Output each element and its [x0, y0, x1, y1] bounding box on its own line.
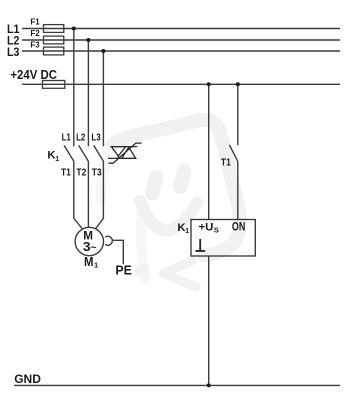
contactor K1 pole 2 contact: [79, 145, 89, 161]
node L2 tap: [86, 38, 90, 42]
wire +Us drop: [208, 84, 210, 219]
svg-text:1: 1: [185, 228, 189, 235]
thyristor bottom bar: [108, 157, 136, 159]
svg-text:F3: F3: [30, 39, 40, 49]
wire drop from L2: [87, 40, 89, 146]
watermark faint cable left: [101, 152, 109, 202]
contactor K1 pole 3 contact: [94, 145, 104, 161]
contact T1: [229, 145, 237, 162]
motor M1 circle: [75, 227, 103, 255]
fuse F3: [44, 47, 64, 55]
fuse F4 (24V): [43, 81, 65, 89]
svg-text:T2: T2: [76, 167, 86, 178]
svg-text:T1: T1: [221, 158, 231, 169]
wire T2 to motor: [87, 161, 89, 227]
soft starter thyristor symbol: [108, 143, 142, 163]
wire +24V DC bus: [22, 83, 340, 85]
wire drop from L1: [73, 29, 75, 147]
thyristor triangle up: [122, 147, 136, 158]
wire GND bus: [14, 384, 340, 386]
relay K1 box: [191, 220, 255, 257]
bypass diagonal with hooks: [109, 143, 142, 163]
wire drop from L3: [102, 51, 104, 146]
wire L1 bus: [22, 28, 340, 30]
svg-text:GND: GND: [14, 372, 41, 386]
svg-text:L3: L3: [91, 132, 101, 143]
svg-text:L2: L2: [76, 132, 86, 143]
contactor K1 pole 1 contact: [64, 145, 74, 161]
PE terminal arc on motor: [105, 236, 112, 245]
svg-text:M: M: [84, 255, 94, 269]
fuse F1: [44, 25, 64, 33]
node +24V tap 1: [207, 82, 211, 86]
watermark right eye: [180, 171, 184, 187]
node GND junction: [207, 383, 211, 387]
wire ON drop upper: [237, 84, 239, 145]
thyristor cathode stub: [117, 156, 119, 158]
wire T3 to motor: [95, 161, 103, 229]
thyristor triangle down: [111, 147, 125, 156]
node +24V tap 2: [236, 82, 240, 86]
watermark logo (light gray, behind): [101, 120, 240, 287]
svg-text:+U: +U: [199, 222, 214, 234]
node L1 tap: [72, 27, 76, 31]
svg-text:PE: PE: [115, 263, 132, 278]
wire K1 box to GND: [208, 256, 210, 385]
watermark left eye: [152, 177, 156, 193]
watermark chevron: [164, 261, 197, 288]
svg-text:S: S: [214, 225, 219, 234]
svg-text:1: 1: [94, 261, 98, 270]
wire L3 bus: [22, 50, 340, 52]
svg-text:+24V DC: +24V DC: [10, 67, 57, 82]
svg-text:L1: L1: [62, 132, 72, 143]
svg-text:F1: F1: [30, 16, 40, 26]
0V terminal symbol in box: [195, 239, 205, 251]
svg-text:1: 1: [55, 156, 59, 163]
wire T1 to motor: [74, 161, 83, 229]
watermark smile: [140, 201, 197, 231]
svg-text:L3: L3: [7, 45, 20, 59]
svg-text:ON: ON: [232, 219, 245, 233]
wire ON drop lower: [237, 161, 239, 219]
watermark hook outline: [109, 120, 240, 256]
svg-text:T3: T3: [92, 167, 102, 178]
fuse F2: [44, 36, 64, 44]
node L3 tap: [101, 49, 105, 53]
svg-text:~: ~: [90, 241, 96, 253]
wire L2 bus: [22, 39, 340, 41]
watermark faint cable right: [141, 206, 146, 279]
svg-text:T1: T1: [61, 167, 71, 178]
watermark dash: [139, 269, 145, 272]
thyristor top bar: [111, 146, 137, 148]
svg-text:F2: F2: [30, 28, 40, 38]
wire PE: [112, 240, 123, 264]
